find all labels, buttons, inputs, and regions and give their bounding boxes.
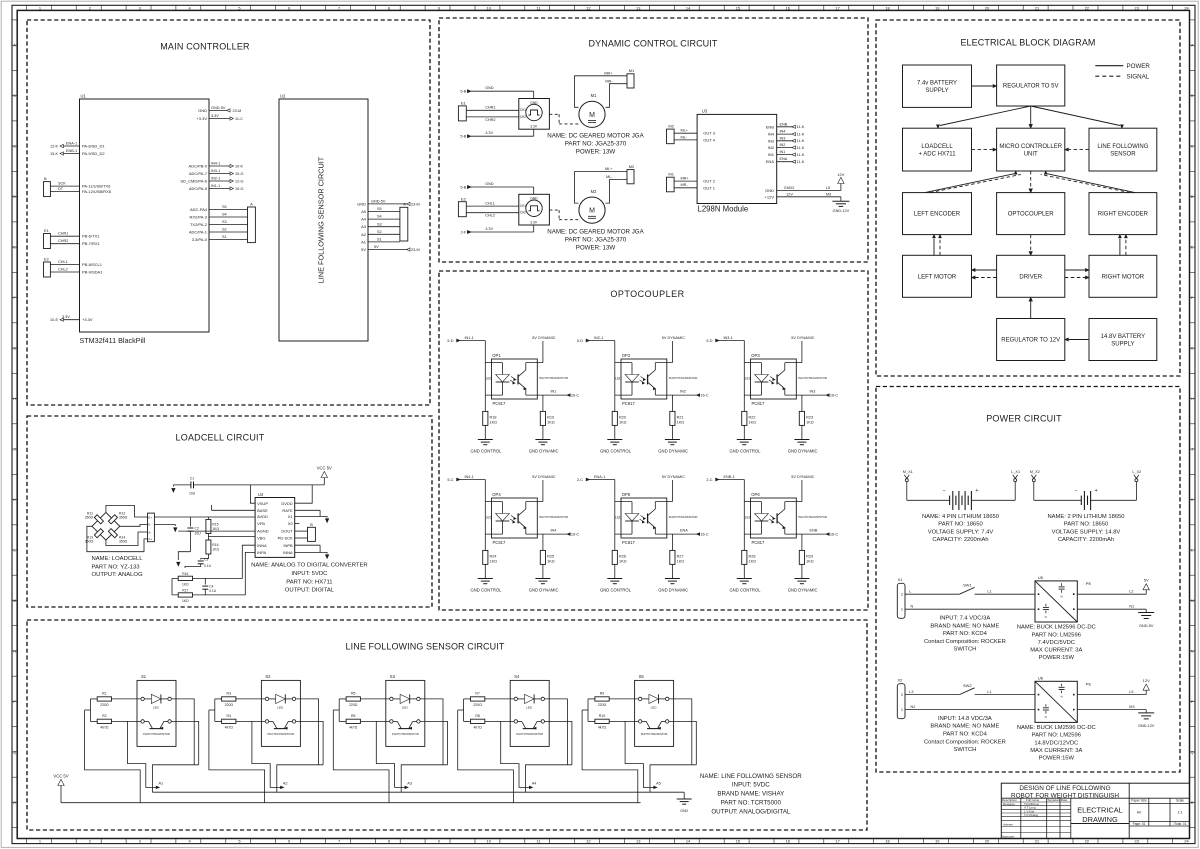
- svg-text:19: 19: [935, 839, 939, 844]
- svg-text:IN4-1: IN4-1: [465, 475, 474, 479]
- svg-text:M: M: [589, 208, 595, 215]
- svg-text:INPB: INPB: [283, 543, 293, 548]
- svg-text:16-C: 16-C: [830, 533, 838, 537]
- svg-text:AVDD: AVDD: [257, 514, 268, 519]
- svg-text:ADC/PB-0: ADC/PB-0: [189, 164, 208, 169]
- svg-text:GND DYNAMIC: GND DYNAMIC: [658, 588, 688, 593]
- svg-text:S5: S5: [377, 207, 382, 211]
- svg-text:220Ω: 220Ω: [473, 703, 482, 707]
- svg-text:ENA: ENA: [780, 157, 788, 161]
- svg-text:SWITCH: SWITCH: [953, 647, 976, 653]
- svg-text:DRAWING: DRAWING: [1082, 815, 1118, 824]
- svg-text:ENA: ENA: [766, 159, 775, 164]
- svg-text:BRAND NAME: NO NAME: BRAND NAME: NO NAME: [930, 724, 999, 730]
- svg-text:H: H: [13, 396, 16, 401]
- svg-text:PART NO: YZ-133: PART NO: YZ-133: [92, 564, 141, 570]
- svg-text:Paper Size: Paper Size: [1131, 799, 1147, 803]
- svg-text:0.1U: 0.1U: [209, 589, 217, 593]
- svg-text:GND: GND: [765, 188, 774, 193]
- svg-text:7.4VDC/5VDC: 7.4VDC/5VDC: [1038, 640, 1075, 646]
- svg-text:1KΩ: 1KΩ: [182, 583, 189, 587]
- svg-text:2: 2: [901, 593, 903, 597]
- svg-text:ADC/PA-7: ADC/PA-7: [189, 171, 208, 176]
- svg-text:POWER:15W: POWER:15W: [1039, 756, 1075, 762]
- svg-text:S5: S5: [222, 205, 227, 209]
- svg-text:5V DYNAMIC: 5V DYNAMIC: [662, 336, 685, 340]
- svg-text:10U: 10U: [195, 532, 202, 536]
- svg-text:0.1U: 0.1U: [204, 564, 212, 568]
- svg-text:L3: L3: [909, 690, 913, 694]
- svg-text:+3.3V: +3.3V: [82, 317, 93, 322]
- svg-text:DYNAMIC CONTROL CIRCUIT: DYNAMIC CONTROL CIRCUIT: [589, 39, 718, 49]
- svg-text:5-D: 5-D: [447, 339, 453, 343]
- svg-text:5-D: 5-D: [577, 339, 583, 343]
- svg-text:GND CONTROL: GND CONTROL: [471, 449, 503, 454]
- svg-text:B: B: [13, 93, 16, 98]
- svg-text:E-: E-: [148, 523, 151, 527]
- svg-text:1:1: 1:1: [1178, 811, 1183, 815]
- svg-text:ML-: ML-: [681, 135, 688, 139]
- svg-text:PHOTOTRANSISTOR: PHOTOTRANSISTOR: [669, 376, 698, 380]
- svg-text:S3: S3: [390, 674, 396, 679]
- svg-text:ML-: ML-: [606, 175, 613, 179]
- svg-text:PART NO: HX711: PART NO: HX711: [286, 579, 332, 585]
- svg-text:MR+: MR+: [604, 71, 613, 75]
- svg-text:S3: S3: [377, 222, 382, 226]
- svg-text:IN3: IN3: [768, 138, 775, 143]
- svg-text:16-C: 16-C: [571, 533, 579, 537]
- svg-text:RATE: RATE: [282, 508, 293, 513]
- svg-text:NAME: LOADCELL: NAME: LOADCELL: [92, 556, 144, 562]
- svg-text:+3.3V: +3.3V: [196, 116, 207, 121]
- svg-text:R23: R23: [806, 416, 813, 420]
- svg-text:IN2-1: IN2-1: [594, 336, 603, 340]
- svg-text:PC817: PC817: [493, 401, 506, 406]
- svg-text:E: E: [1191, 245, 1194, 250]
- svg-text:U1: U1: [81, 94, 87, 99]
- svg-text:L_X2: L_X2: [1132, 470, 1141, 474]
- svg-text:RIGHT ENCODER: RIGHT ENCODER: [1098, 212, 1149, 218]
- svg-text:Page: 01: Page: 01: [1133, 822, 1146, 826]
- svg-text:16-C: 16-C: [571, 394, 579, 398]
- svg-text:B: B: [44, 176, 47, 181]
- svg-text:M: M: [13, 598, 16, 603]
- svg-text:5V DYNAMIC: 5V DYNAMIC: [791, 336, 814, 340]
- svg-text:ELECTRICAL BLOCK DIAGRAM: ELECTRICAL BLOCK DIAGRAM: [960, 38, 1095, 48]
- svg-text:GND CONTROL: GND CONTROL: [600, 588, 632, 593]
- svg-text:IN1: IN1: [768, 152, 775, 157]
- svg-text:Contact Composition: ROCKER: Contact Composition: ROCKER: [924, 739, 1006, 745]
- svg-text:R27: R27: [677, 555, 684, 559]
- svg-text:GND: GND: [485, 86, 494, 90]
- svg-text:L_X1: L_X1: [1011, 470, 1020, 474]
- svg-text:5V: 5V: [374, 245, 379, 249]
- svg-text:GND-12V: GND-12V: [1138, 724, 1155, 728]
- svg-text:23-M: 23-M: [233, 109, 242, 113]
- svg-text:23-M: 23-M: [411, 248, 420, 252]
- svg-text:R18: R18: [490, 416, 497, 420]
- svg-text:M_X1: M_X1: [903, 470, 913, 474]
- svg-text:BRAND NAME: NO NAME: BRAND NAME: NO NAME: [930, 623, 999, 629]
- svg-text:OP4: OP4: [492, 492, 501, 497]
- svg-text:R16: R16: [212, 543, 218, 547]
- svg-text:12-K: 12-K: [50, 144, 58, 148]
- svg-text:1KΩ: 1KΩ: [182, 599, 189, 603]
- svg-text:12V: 12V: [837, 172, 844, 177]
- svg-text:CHR2: CHR2: [58, 239, 68, 243]
- svg-text:A: A: [403, 202, 406, 207]
- svg-text:A5: A5: [656, 782, 661, 786]
- svg-text:8: 8: [388, 839, 390, 844]
- svg-text:X2: X2: [898, 677, 904, 682]
- svg-text:15-G: 15-G: [235, 172, 243, 176]
- svg-text:M1: M1: [591, 93, 597, 98]
- svg-text:AGND: AGND: [257, 529, 269, 534]
- svg-text:+: +: [1094, 488, 1097, 494]
- svg-text:PART NO: TCRT5000: PART NO: TCRT5000: [721, 800, 782, 807]
- svg-text:C: C: [1191, 144, 1194, 149]
- svg-text:M2: M2: [668, 123, 674, 128]
- svg-text:11: 11: [536, 5, 540, 10]
- svg-text:VOLTAGE SUPPLY: 7.4V: VOLTAGE SUPPLY: 7.4V: [928, 529, 994, 535]
- svg-text:+: +: [975, 488, 978, 494]
- svg-text:CHR1: CHR1: [485, 106, 495, 110]
- svg-text:LINE FOLLOWING SENSOR CIRCUIT: LINE FOLLOWING SENSOR CIRCUIT: [346, 642, 505, 652]
- svg-text:RX2/PA-3: RX2/PA-3: [190, 215, 208, 220]
- svg-text:2: 2: [89, 5, 91, 10]
- svg-text:ADC/PA-1: ADC/PA-1: [189, 230, 208, 235]
- svg-text:22: 22: [1085, 839, 1089, 844]
- svg-text:CHL2: CHL2: [485, 214, 495, 218]
- svg-text:SD_CMD/PA-6: SD_CMD/PA-6: [180, 179, 207, 184]
- svg-text:1KΩ: 1KΩ: [806, 559, 814, 563]
- svg-text:LED: LED: [402, 705, 409, 709]
- svg-text:PHOTOTRANSISTOR: PHOTOTRANSISTOR: [516, 732, 543, 736]
- svg-text:LED: LED: [651, 705, 658, 709]
- svg-text:R24: R24: [490, 555, 497, 559]
- svg-text:A-: A-: [148, 530, 151, 534]
- svg-text:G: G: [13, 346, 16, 351]
- svg-text:U5: U5: [1038, 575, 1044, 580]
- svg-text:MICRO CONTROLLER: MICRO CONTROLLER: [999, 144, 1062, 150]
- svg-text:C4: C4: [209, 585, 213, 589]
- svg-text:CH2: CH2: [520, 211, 527, 215]
- svg-text:IN2: IN2: [768, 145, 775, 150]
- svg-text:E2: E2: [44, 257, 50, 262]
- svg-text:PE: PE: [1086, 581, 1092, 586]
- svg-text:17: 17: [835, 5, 839, 10]
- svg-text:VCC 5V: VCC 5V: [53, 773, 68, 778]
- svg-text:ENA: ENA: [680, 529, 688, 533]
- svg-text:GND CONTROL: GND CONTROL: [600, 449, 632, 454]
- svg-text:GND: GND: [530, 197, 538, 201]
- svg-text:+12V: +12V: [765, 194, 775, 199]
- svg-text:A2: A2: [361, 232, 367, 237]
- svg-text:18: 18: [885, 5, 889, 10]
- svg-text:M: M: [1191, 598, 1194, 603]
- svg-text:OUT 2: OUT 2: [703, 179, 715, 184]
- svg-text:CH1: CH1: [520, 204, 527, 208]
- svg-text:C: C: [13, 144, 16, 149]
- svg-text:NAME: 2 PIN LITHIUM 18650: NAME: 2 PIN LITHIUM 18650: [1048, 514, 1125, 520]
- svg-text:1KΩ: 1KΩ: [547, 559, 555, 563]
- svg-text:GND: GND: [530, 101, 538, 105]
- svg-text:R29: R29: [806, 555, 813, 559]
- svg-text:16-C: 16-C: [700, 394, 708, 398]
- svg-text:ENA-1: ENA-1: [594, 475, 605, 479]
- svg-text:L1: L1: [987, 690, 991, 694]
- svg-text:IN4: IN4: [780, 130, 786, 134]
- svg-text:R26: R26: [619, 555, 626, 559]
- svg-text:ADC/PA-5: ADC/PA-5: [189, 186, 208, 191]
- svg-text:10U: 10U: [189, 492, 196, 496]
- svg-text:BASE: BASE: [257, 508, 268, 513]
- svg-text:ML+: ML+: [605, 167, 613, 171]
- svg-text:U6: U6: [1038, 676, 1044, 681]
- svg-text:DT: DT: [58, 187, 64, 191]
- svg-text:S1: S1: [377, 238, 382, 242]
- svg-text:R25: R25: [547, 555, 554, 559]
- svg-text:5-D: 5-D: [706, 339, 712, 343]
- svg-text:R5: R5: [351, 692, 356, 696]
- svg-text:C2: C2: [195, 527, 199, 531]
- svg-text:5V DYNAMIC: 5V DYNAMIC: [662, 475, 685, 479]
- svg-text:A2: A2: [283, 782, 288, 786]
- svg-text:R: R: [1191, 800, 1194, 805]
- svg-text:11-K: 11-K: [797, 146, 805, 150]
- svg-text:POWER: 13W: POWER: 13W: [576, 149, 616, 156]
- svg-text:A3: A3: [407, 782, 412, 786]
- svg-text:E2: E2: [461, 196, 467, 201]
- svg-text:S1: S1: [141, 674, 147, 679]
- svg-text:D: D: [1191, 194, 1194, 199]
- svg-text:R22: R22: [749, 416, 756, 420]
- svg-text:21: 21: [1035, 839, 1039, 844]
- svg-text:PART NO: KCD4: PART NO: KCD4: [943, 732, 988, 738]
- svg-text:R21: R21: [677, 416, 684, 420]
- svg-text:PB-6/TX1: PB-6/TX1: [82, 234, 100, 239]
- svg-text:3.3V: 3.3V: [530, 220, 538, 224]
- svg-text:PART NO: JGA25-370: PART NO: JGA25-370: [565, 237, 627, 244]
- svg-text:A0: A0: [1137, 811, 1141, 815]
- svg-text:PHOTOTRANSISTOR: PHOTOTRANSISTOR: [669, 515, 698, 519]
- svg-text:E+: E+: [148, 515, 152, 519]
- svg-text:PHOTOTRANSISTOR: PHOTOTRANSISTOR: [143, 732, 170, 736]
- svg-text:S2: S2: [222, 228, 227, 232]
- svg-text:VSUP: VSUP: [257, 501, 268, 506]
- svg-text:1KΩ: 1KΩ: [749, 559, 757, 563]
- svg-text:5-B: 5-B: [460, 90, 466, 94]
- svg-text:11-K: 11-K: [797, 125, 805, 129]
- svg-text:ELECTRICAL: ELECTRICAL: [1077, 806, 1123, 815]
- svg-text:1KΩ: 1KΩ: [212, 548, 219, 552]
- svg-text:CH2: CH2: [520, 115, 527, 119]
- svg-text:A1: A1: [361, 239, 367, 244]
- svg-text:GND-5V: GND-5V: [371, 199, 386, 203]
- svg-text:12: 12: [586, 839, 590, 844]
- svg-text:Q: Q: [13, 750, 16, 755]
- svg-text:15: 15: [736, 5, 740, 10]
- svg-text:PART NO: LM2596: PART NO: LM2596: [1032, 733, 1081, 739]
- svg-text:CHR1: CHR1: [58, 232, 68, 236]
- svg-text:+ ADC HX711: + ADC HX711: [918, 151, 956, 157]
- svg-text:PC817: PC817: [752, 540, 765, 545]
- svg-text:OUTPUT: ANALOG: OUTPUT: ANALOG: [92, 572, 143, 578]
- svg-text:14.8V BATTERY: 14.8V BATTERY: [1101, 334, 1145, 340]
- svg-text:IN2-1: IN2-1: [211, 176, 220, 180]
- svg-text:GND CONTROL: GND CONTROL: [471, 588, 503, 593]
- svg-text:R15: R15: [212, 523, 218, 527]
- svg-text:ENB-1: ENB-1: [724, 475, 735, 479]
- svg-text:GND CONTROL: GND CONTROL: [730, 588, 762, 593]
- svg-text:INPUT: 5VDC: INPUT: 5VDC: [291, 571, 328, 577]
- svg-text:S4: S4: [222, 213, 227, 217]
- svg-text:E1: E1: [44, 228, 50, 233]
- svg-text:J: J: [14, 447, 16, 452]
- svg-text:LOADCELL: LOADCELL: [921, 144, 953, 150]
- svg-text:5V DYNAMIC: 5V DYNAMIC: [791, 475, 814, 479]
- svg-text:OPTOCOUPLER: OPTOCOUPLER: [610, 289, 684, 299]
- svg-text:−: −: [1074, 488, 1077, 494]
- svg-text:15: 15: [736, 839, 740, 844]
- svg-text:R8: R8: [475, 714, 480, 718]
- svg-text:L2: L2: [1129, 589, 1133, 593]
- svg-text:LINE FOLLOWING: LINE FOLLOWING: [1097, 144, 1148, 150]
- svg-text:5-C: 5-C: [447, 478, 453, 482]
- svg-text:CHL1: CHL1: [58, 260, 68, 264]
- svg-text:10-E: 10-E: [50, 318, 58, 322]
- svg-text:PHOTOTRANSISTOR: PHOTOTRANSISTOR: [641, 732, 668, 736]
- svg-text:SENSOR: SENSOR: [1110, 151, 1136, 157]
- svg-text:GND: GND: [485, 182, 494, 186]
- svg-text:CAPACITY: 2200mAh: CAPACITY: 2200mAh: [932, 537, 988, 543]
- svg-text:Contact Composition: ROCKER: Contact Composition: ROCKER: [924, 639, 1006, 645]
- svg-text:A+: A+: [148, 537, 152, 541]
- svg-text:BRAND NAME: VISHAY: BRAND NAME: VISHAY: [717, 791, 784, 798]
- svg-text:LED: LED: [615, 516, 622, 520]
- svg-text:IN1-1: IN1-1: [465, 336, 474, 340]
- svg-text:LED: LED: [277, 705, 284, 709]
- svg-text:17: 17: [835, 839, 839, 844]
- svg-text:NAME: BUCK LM2596 DC-DC: NAME: BUCK LM2596 DC-DC: [1017, 625, 1096, 631]
- svg-text:1: 1: [901, 608, 903, 612]
- svg-text:MR+: MR+: [681, 177, 690, 181]
- svg-text:L5: L5: [1129, 690, 1133, 694]
- svg-text:N1: N1: [1129, 604, 1134, 608]
- svg-text:1KΩ: 1KΩ: [490, 420, 498, 424]
- svg-text:SW1: SW1: [963, 583, 972, 588]
- svg-text:LED: LED: [745, 377, 752, 381]
- svg-text:LED: LED: [486, 377, 493, 381]
- svg-text:R4: R4: [227, 714, 232, 718]
- svg-text:22: 22: [1085, 5, 1089, 10]
- svg-text:6: 6: [288, 839, 290, 844]
- svg-text:GND DYNAMIC: GND DYNAMIC: [788, 588, 818, 593]
- svg-text:IN3: IN3: [810, 390, 816, 394]
- svg-text:350Ω: 350Ω: [85, 539, 94, 543]
- svg-text:A5: A5: [361, 209, 367, 214]
- svg-text:VCC 5V: VCC 5V: [317, 465, 332, 470]
- svg-text:1KΩ: 1KΩ: [619, 420, 627, 424]
- svg-text:Adviser: Adviser: [1003, 823, 1013, 827]
- svg-text:PC817: PC817: [622, 401, 635, 406]
- svg-text:M1: M1: [629, 68, 635, 73]
- svg-text:LED: LED: [615, 377, 622, 381]
- svg-text:L: L: [909, 589, 911, 593]
- svg-text:POWER: POWER: [1127, 63, 1151, 70]
- svg-text:NAME: LINE FOLLOWING SENSOR: NAME: LINE FOLLOWING SENSOR: [700, 773, 802, 780]
- svg-text:LOADCELL CIRCUIT: LOADCELL CIRCUIT: [176, 433, 265, 443]
- svg-text:GND CONTROL: GND CONTROL: [730, 449, 762, 454]
- svg-text:S2: S2: [265, 674, 271, 679]
- svg-text:14.8VDC/12VDC: 14.8VDC/12VDC: [1034, 740, 1078, 746]
- svg-text:350Ω: 350Ω: [85, 515, 94, 519]
- svg-text:POWER CIRCUIT: POWER CIRCUIT: [986, 414, 1062, 424]
- svg-text:PE: PE: [1086, 681, 1092, 686]
- svg-text:S4: S4: [514, 674, 520, 679]
- svg-text:OP2: OP2: [622, 353, 631, 358]
- svg-text:B: B: [310, 522, 313, 527]
- svg-text:23: 23: [1135, 839, 1139, 844]
- svg-text:ENB: ENB: [810, 529, 818, 533]
- svg-text:23: 23: [1135, 5, 1139, 10]
- svg-text:CHR2: CHR2: [485, 118, 495, 122]
- svg-text:GND: GND: [357, 201, 366, 206]
- svg-text:/Total: 01: /Total: 01: [1174, 822, 1187, 826]
- svg-text:Q: Q: [1191, 750, 1194, 755]
- svg-text:OUT 3: OUT 3: [703, 131, 715, 136]
- svg-text:PART NO: 18650: PART NO: 18650: [1064, 522, 1108, 528]
- svg-text:23-M: 23-M: [411, 202, 420, 206]
- svg-text:5V: 5V: [1144, 578, 1149, 583]
- svg-text:LED: LED: [526, 705, 533, 709]
- svg-text:5-B: 5-B: [460, 135, 466, 139]
- svg-text:L298N Module: L298N Module: [698, 205, 749, 214]
- svg-text:LED: LED: [745, 516, 752, 520]
- svg-text:7.4v BATTERY: 7.4v BATTERY: [917, 81, 957, 87]
- svg-text:11-C: 11-C: [235, 117, 243, 121]
- svg-text:T.C.Khang: T.C.Khang: [1024, 813, 1038, 817]
- svg-text:U3: U3: [702, 109, 708, 114]
- svg-text:REGULATOR TO 5V: REGULATOR TO 5V: [1003, 84, 1059, 90]
- svg-text:ADC-PA4: ADC-PA4: [190, 207, 208, 212]
- svg-text:U4: U4: [258, 492, 264, 497]
- svg-text:PC817: PC817: [622, 540, 635, 545]
- svg-text:4k7Ω: 4k7Ω: [598, 726, 607, 730]
- svg-text:3.3/PA-0: 3.3/PA-0: [192, 237, 208, 242]
- svg-text:1KΩ: 1KΩ: [490, 559, 498, 563]
- svg-text:PB-9/SDA1: PB-9/SDA1: [82, 270, 103, 275]
- svg-text:15-K: 15-K: [50, 152, 58, 156]
- svg-text:CHL2: CHL2: [58, 267, 68, 271]
- svg-text:1KΩ: 1KΩ: [677, 420, 685, 424]
- svg-text:S3: S3: [222, 220, 227, 224]
- svg-text:VFB: VFB: [257, 521, 265, 526]
- svg-text:GND: GND: [198, 108, 207, 113]
- svg-text:1KΩ: 1KΩ: [547, 420, 555, 424]
- svg-text:IN1: IN1: [780, 150, 786, 154]
- svg-text:16: 16: [786, 5, 790, 10]
- svg-text:IN4-1: IN4-1: [211, 161, 220, 165]
- svg-text:PA-12/USB/RX6: PA-12/USB/RX6: [82, 189, 112, 194]
- svg-text:R7: R7: [475, 692, 480, 696]
- svg-text:VBG: VBG: [257, 536, 265, 541]
- svg-text:A4: A4: [361, 217, 367, 222]
- svg-text:GND DYNAMIC: GND DYNAMIC: [529, 449, 559, 454]
- svg-text:S4: S4: [377, 215, 382, 219]
- svg-text:SUPPLY: SUPPLY: [925, 88, 948, 94]
- svg-text:PART NO: JGA25-370: PART NO: JGA25-370: [565, 141, 627, 148]
